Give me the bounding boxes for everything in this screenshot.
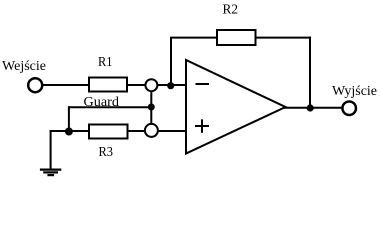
- ground: [40, 170, 61, 176]
- op-amp U1: [186, 60, 286, 154]
- guard ring bottom circle: [145, 124, 158, 137]
- wire input terminal to R1: [43, 84, 90, 86]
- wire guard left vertical leg: [68, 106, 70, 131]
- junction node guard-to-ring: [148, 104, 155, 111]
- wire ground riser: [50, 130, 52, 169]
- svg-text:Wyjście: Wyjście: [332, 84, 377, 99]
- wire op-amp output to terminal: [284, 107, 342, 109]
- svg-text:R2: R2: [223, 3, 239, 18]
- svg-text:R1: R1: [98, 55, 113, 70]
- junction node guard-to-ground-leg: [65, 128, 73, 136]
- op-amp minus pin mark: [196, 83, 210, 85]
- svg-text:R3: R3: [99, 145, 114, 160]
- junction node A (inverting input / feedback): [167, 82, 174, 89]
- wire bottom: ground corner through R3 and guard ring bottom circle to non-inverting input: [50, 130, 186, 132]
- resistor R1: [89, 78, 127, 92]
- wire guard ring vertical link between ring circles: [150, 85, 152, 131]
- input terminal circle (Wejście): [28, 78, 42, 92]
- resistor R3: [89, 125, 128, 139]
- resistor R2: [217, 30, 256, 45]
- output terminal circle (Wyjście): [342, 101, 356, 115]
- op-amp plus pin mark: [195, 119, 209, 133]
- wire guard horizontal: [69, 106, 151, 108]
- svg-text:Wejście: Wejście: [2, 59, 46, 74]
- wire feedback vertical from node A up: [170, 38, 172, 86]
- junction node output: [307, 104, 314, 111]
- wire top horizontal through R2: [170, 37, 311, 39]
- guard ring top circle: [145, 79, 157, 91]
- wire R1 to inverting input (through guard ring top circle): [126, 84, 186, 86]
- wire R2 right vertical down to output node: [309, 37, 311, 108]
- svg-text:Guard: Guard: [84, 95, 120, 110]
